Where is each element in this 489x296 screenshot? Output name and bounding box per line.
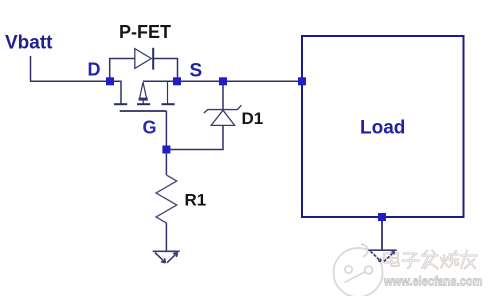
- mosfet Q1 gate bar: [120, 110, 167, 112]
- load box: [302, 36, 464, 217]
- wire junction to zener D1: [222, 81, 224, 110]
- svg-text:S: S: [190, 60, 203, 81]
- wire Vbatt to D node: [30, 80, 110, 82]
- wire body-diode left riser: [110, 59, 135, 82]
- watermark logo circle: [334, 244, 383, 296]
- node Load left: [298, 77, 306, 85]
- wire zener anode to G node: [166, 125, 223, 149]
- mosfet Q1 body arrow: [139, 82, 148, 103]
- zener D1 cathode bar: [204, 105, 242, 113]
- ground left: [153, 251, 180, 262]
- node S: [173, 77, 181, 85]
- svg-text:D: D: [88, 60, 101, 80]
- node junction D1 branch: [219, 77, 227, 85]
- ground right: [368, 250, 396, 261]
- node G: [162, 146, 170, 154]
- svg-text:Vbatt: Vbatt: [5, 33, 53, 54]
- svg-text:G: G: [143, 117, 157, 137]
- svg-text:www.elecfans.com: www.elecfans.com: [383, 273, 482, 288]
- wire Vbatt lead: [30, 56, 32, 81]
- mosfet Q1 contact bars: [114, 103, 175, 105]
- node D: [106, 77, 114, 85]
- svg-text:R1: R1: [185, 190, 207, 209]
- wire body-diode right lead and riser to S node: [153, 59, 177, 82]
- wire S node to Load box: [143, 80, 302, 82]
- wire gate lead to G node: [165, 111, 167, 150]
- wire D node to drain lead: [110, 81, 121, 103]
- svg-text:D1: D1: [242, 109, 264, 128]
- watermark hanzi white inner stroke: [384, 251, 477, 269]
- diode body-diode triangle: [135, 49, 152, 69]
- wire G node down to R1: [165, 150, 167, 176]
- mosfet Q1 source stub: [167, 81, 169, 103]
- resistor R1: [156, 175, 177, 223]
- svg-text:P-FET: P-FET: [119, 22, 171, 42]
- watermark text dian-zi-fa-shao-you (电子发烧友): [384, 251, 477, 269]
- watermark text www.elecfans.com: [383, 273, 482, 288]
- zener D1 triangle: [211, 110, 234, 125]
- wire Load bottom to ground: [381, 217, 383, 250]
- diode body-diode cathode bar: [152, 48, 154, 70]
- svg-text:Load: Load: [360, 117, 405, 138]
- node Load bottom: [378, 213, 386, 221]
- wire R1 bottom lead: [165, 223, 167, 251]
